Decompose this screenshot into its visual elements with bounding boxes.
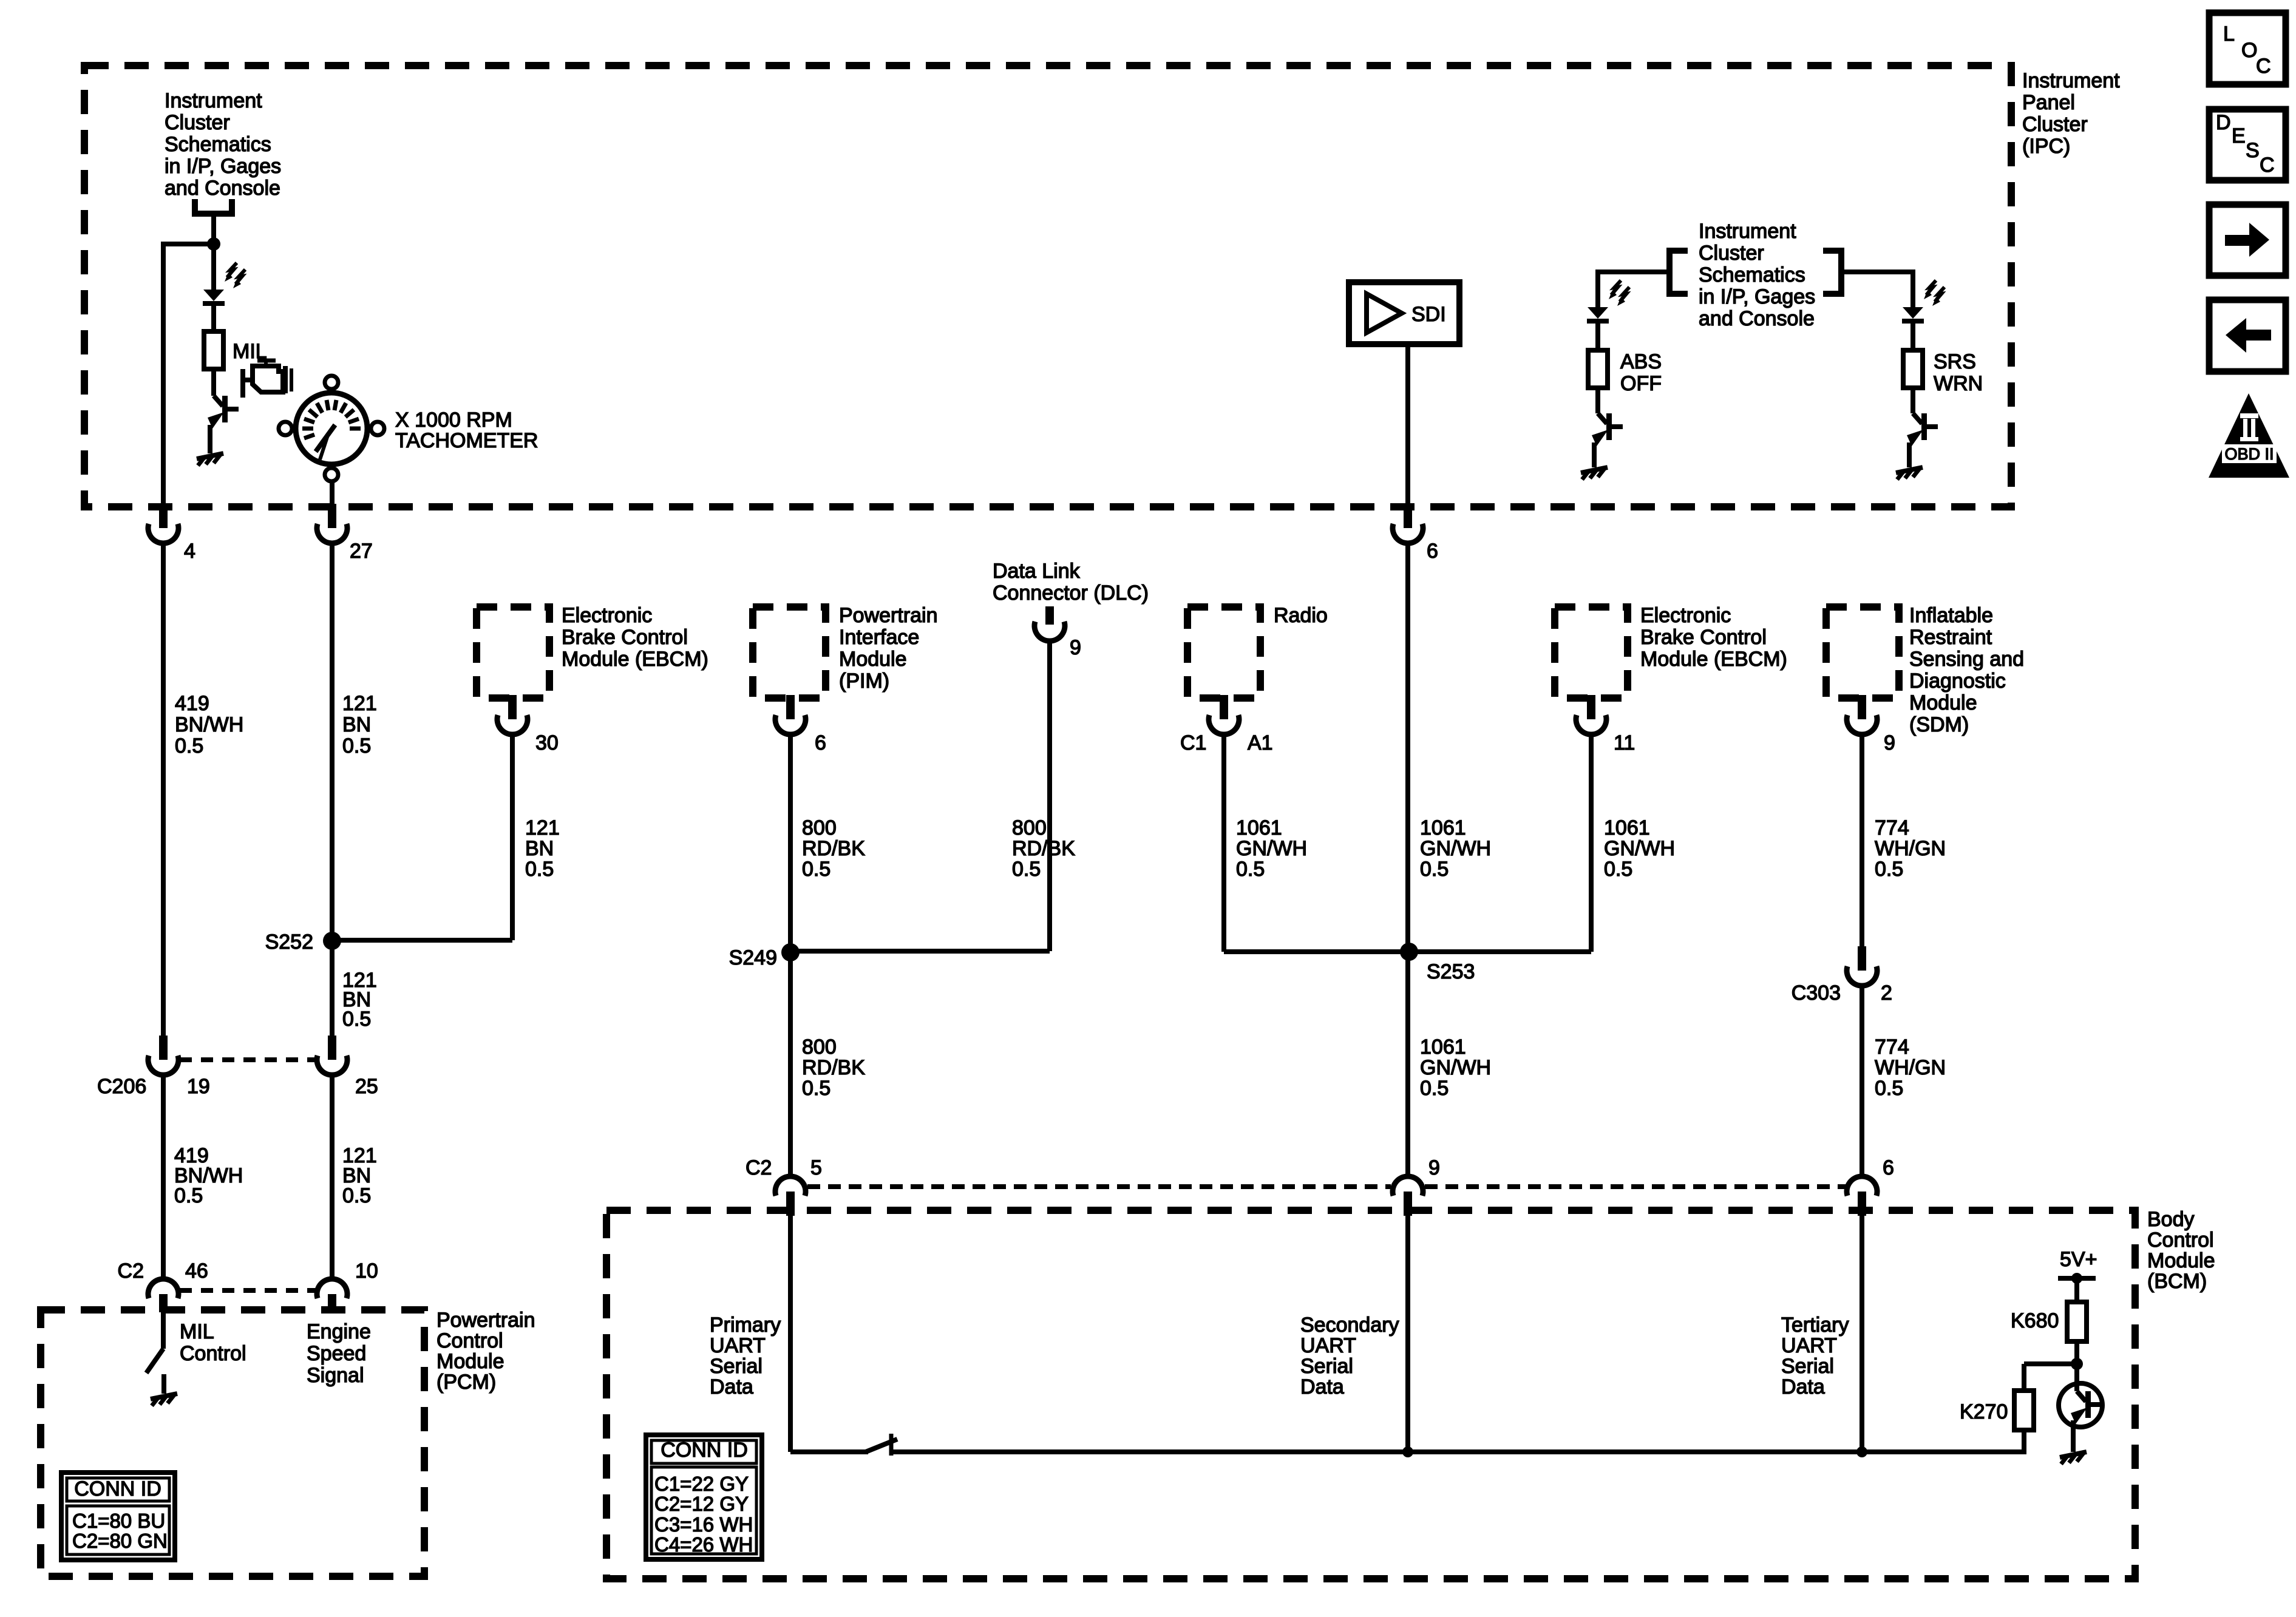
svg-text:Radio: Radio: [1274, 604, 1328, 627]
svg-text:0.5: 0.5: [342, 1008, 371, 1031]
svg-text:S249: S249: [729, 946, 777, 969]
svg-text:Data: Data: [710, 1375, 753, 1398]
svg-text:D: D: [2216, 111, 2231, 134]
svg-text:Control: Control: [180, 1342, 246, 1365]
right arrow icon box: [2209, 205, 2286, 276]
svg-text:Module (EBCM): Module (EBCM): [1640, 648, 1787, 671]
svg-text:BN: BN: [342, 713, 371, 736]
C206 row dashes: [180, 1057, 316, 1062]
wire S249 to DLC: [790, 949, 1050, 954]
svg-text:0.5: 0.5: [175, 734, 203, 758]
PCM dashed box: [41, 1310, 424, 1576]
wire label 1061 GN/WH 0.5 (SDI): [1420, 816, 1491, 881]
svg-text:UART: UART: [1781, 1334, 1837, 1357]
connector pin 9 (SDM): [1847, 695, 1877, 734]
svg-text:4: 4: [184, 540, 195, 563]
resistor K270: [2014, 1391, 2034, 1430]
wire resistor to driver: [211, 369, 216, 396]
wire K680 to junction: [2074, 1341, 2079, 1391]
svg-text:S: S: [2246, 139, 2260, 162]
K270 label: [1960, 1400, 2008, 1423]
wire 46 into PCM: [161, 1312, 166, 1349]
pin 6 label: [1427, 540, 1438, 563]
svg-text:K270: K270: [1960, 1400, 2008, 1423]
wire SDI pin6 down through S253: [1405, 544, 1410, 1175]
SRS indicator lamp: [1902, 280, 1944, 321]
svg-text:Electronic: Electronic: [1640, 604, 1731, 627]
svg-text:6: 6: [815, 731, 826, 754]
svg-text:0.5: 0.5: [342, 734, 371, 758]
ground MIL control: [151, 1394, 177, 1406]
CONN ID table (BCM): [646, 1435, 762, 1559]
5V+ label: [2060, 1248, 2097, 1271]
svg-text:GN/WH: GN/WH: [1604, 837, 1675, 860]
connector pin 6 (IPC): [1393, 504, 1423, 543]
svg-text:WRN: WRN: [1934, 372, 1983, 395]
svg-text:0.5: 0.5: [174, 1184, 203, 1207]
resistor SRS: [1903, 350, 1923, 388]
node junction dot: [207, 237, 220, 251]
wire label 774 WH/GN 0.5: [1875, 816, 1946, 881]
ground ABS: [1581, 467, 1608, 480]
wire label 121 BN 0.5 (lower): [342, 1144, 377, 1207]
svg-text:Module (EBCM): Module (EBCM): [562, 648, 708, 671]
svg-text:WH/GN: WH/GN: [1875, 837, 1946, 860]
wire SRS resistor to driver: [1911, 388, 1915, 413]
bus switch blade: [866, 1434, 897, 1456]
Engine Speed Signal label: [307, 1320, 371, 1387]
svg-text:MIL: MIL: [180, 1320, 214, 1343]
svg-text:ABS: ABS: [1620, 350, 1662, 373]
svg-text:Serial: Serial: [710, 1355, 763, 1378]
svg-text:0.5: 0.5: [525, 858, 554, 881]
connector pin 6 (PIM): [775, 695, 806, 734]
pin 27 label: [350, 540, 373, 563]
wire ABS lamp to resistor: [1595, 321, 1600, 350]
bracket under note: [195, 199, 232, 214]
svg-text:Schematics: Schematics: [165, 133, 271, 156]
svg-text:OBD II: OBD II: [2224, 445, 2274, 463]
S249 label: [729, 946, 777, 969]
OBD II icon: [2209, 393, 2289, 478]
svg-text:0.5: 0.5: [1012, 858, 1041, 881]
wire bracket to SRS lamp: [1841, 269, 1913, 307]
connector C303 pin 2: [1847, 946, 1877, 986]
svg-text:BN/WH: BN/WH: [175, 713, 243, 736]
svg-text:C2=12 GY: C2=12 GY: [654, 1493, 749, 1515]
driver symbol MIL: [208, 396, 239, 429]
SDM dashed box: [1826, 607, 1899, 698]
svg-text:25: 25: [355, 1075, 378, 1098]
svg-text:L: L: [2223, 22, 2235, 46]
svg-text:(IPC): (IPC): [2022, 135, 2070, 158]
wire label 121 BN 0.5: [342, 692, 377, 758]
svg-text:E: E: [2232, 124, 2246, 147]
wire label 800 RD/BK 0.5: [802, 816, 865, 881]
svg-text:9: 9: [1070, 636, 1081, 659]
svg-text:CONN ID: CONN ID: [74, 1477, 161, 1500]
driver symbol ABS: [1592, 413, 1623, 446]
pin 25 label: [355, 1075, 378, 1098]
LOC icon box: [2209, 13, 2286, 84]
svg-text:C: C: [2256, 55, 2271, 78]
svg-text:Panel: Panel: [2022, 91, 2075, 114]
EBCM dashed box (right): [1555, 607, 1628, 698]
instrument panel cluster (IPC) dashed box: [84, 66, 2011, 507]
5V+ supply bar: [2058, 1273, 2096, 1284]
wire label 121 BN 0.5 (EBCM): [525, 816, 560, 881]
wire radio to S253 row: [1224, 735, 1409, 952]
wire label 121 BN 0.5 (below S252): [342, 969, 377, 1031]
svg-text:CONN ID: CONN ID: [661, 1439, 748, 1462]
pin 5 label: [810, 1156, 822, 1179]
svg-text:Secondary: Secondary: [1300, 1314, 1399, 1337]
svg-text:and Console: and Console: [165, 177, 280, 200]
wire driver to ground: [208, 425, 212, 453]
svg-text:0.5: 0.5: [1236, 858, 1265, 881]
wire tach to pin 27: [330, 480, 335, 505]
svg-text:Restraint: Restraint: [1909, 626, 1992, 649]
wire node to MIL lamp: [211, 244, 216, 290]
svg-text:GN/WH: GN/WH: [1420, 1056, 1491, 1079]
svg-text:Engine: Engine: [307, 1320, 371, 1343]
svg-text:C2=80 GN: C2=80 GN: [72, 1530, 168, 1552]
svg-text:9: 9: [1428, 1156, 1440, 1179]
splice S252: [323, 932, 341, 950]
svg-text:Module: Module: [2147, 1249, 2215, 1272]
svg-text:0.5: 0.5: [342, 1184, 371, 1207]
wire pin6 to S249: [788, 735, 793, 952]
wire 25 to 10: [330, 1076, 335, 1278]
C1 label: [1180, 731, 1206, 754]
svg-text:SDI: SDI: [1411, 303, 1446, 326]
BCM dashed box: [606, 1210, 2135, 1579]
svg-text:C1: C1: [1180, 731, 1206, 754]
connector C2 pin 46 (dome): [148, 1279, 178, 1312]
connector pin 9 (BCM): [1393, 1176, 1423, 1216]
svg-text:Brake Control: Brake Control: [1640, 626, 1767, 649]
Secondary UART label: [1300, 1314, 1399, 1398]
svg-text:6: 6: [1883, 1156, 1894, 1179]
SDM label: [1909, 604, 2024, 736]
wire node to left branch: [163, 242, 214, 246]
svg-text:6: 6: [1427, 540, 1438, 563]
svg-text:Powertrain: Powertrain: [436, 1309, 535, 1332]
wire C303 down: [1860, 986, 1864, 1175]
svg-text:30: 30: [535, 731, 559, 754]
bracket right: [1823, 251, 1841, 294]
resistor ABS: [1588, 350, 1608, 388]
svg-text:Module: Module: [1909, 691, 1977, 714]
svg-text:GN/WH: GN/WH: [1420, 837, 1491, 860]
svg-text:S252: S252: [265, 931, 313, 954]
svg-text:Serial: Serial: [1300, 1355, 1353, 1378]
svg-text:C3=16 WH: C3=16 WH: [654, 1513, 753, 1536]
svg-text:774: 774: [1875, 1036, 1909, 1059]
svg-text:UART: UART: [710, 1334, 766, 1357]
svg-text:Powertrain: Powertrain: [839, 604, 938, 627]
connector C206 pin 25: [317, 1036, 347, 1075]
tachometer gauge: [279, 376, 384, 481]
pin 10 label: [355, 1259, 378, 1283]
wire 5V to K680: [2074, 1278, 2079, 1302]
wire SDI to pin 6: [1405, 344, 1410, 505]
DLC label: [993, 560, 1149, 605]
wire ABS resistor to driver: [1595, 388, 1600, 413]
wire K270 to bus: [2022, 1430, 2026, 1454]
svg-text:774: 774: [1875, 816, 1909, 839]
C2 row dashes: [180, 1288, 316, 1293]
svg-text:Diagnostic: Diagnostic: [1909, 670, 2006, 693]
svg-text:419: 419: [175, 692, 209, 715]
svg-text:RD/BK: RD/BK: [802, 1056, 865, 1079]
Primary UART label: [710, 1314, 781, 1398]
svg-text:1061: 1061: [1420, 816, 1466, 839]
svg-text:121: 121: [342, 692, 377, 715]
svg-text:Inflatable: Inflatable: [1909, 604, 1993, 627]
junction secondary-bus: [1402, 1446, 1413, 1457]
svg-text:X 1000 RPM: X 1000 RPM: [395, 408, 512, 432]
connector pin 6 (BCM): [1847, 1176, 1877, 1216]
connector pin 11: [1576, 695, 1606, 734]
CONN ID table (PCM): [61, 1473, 175, 1560]
wire junction to K270: [2024, 1364, 2077, 1391]
wire pin30 down to S252 row: [510, 735, 515, 940]
wire label 1061 GN/WH 0.5 (EBCM): [1604, 816, 1675, 881]
bracket left: [1669, 251, 1688, 294]
connector C2 pin 5 (BCM): [775, 1176, 806, 1216]
svg-text:in I/P, Gages: in I/P, Gages: [165, 155, 281, 178]
pin 4 label: [184, 540, 195, 563]
wire bracket to node: [211, 214, 216, 244]
svg-text:Instrument: Instrument: [165, 89, 262, 112]
svg-text:Signal: Signal: [307, 1364, 364, 1387]
pin 6 BCM label: [1883, 1156, 1894, 1179]
connector pin 30: [497, 695, 528, 734]
svg-text:C2: C2: [746, 1156, 772, 1179]
wire SRS driver to ground: [1907, 442, 1912, 467]
ground transistor: [2060, 1452, 2087, 1464]
pin 46 label: [185, 1259, 208, 1283]
wire primary UART: [788, 1215, 793, 1452]
svg-text:800: 800: [1012, 816, 1047, 839]
svg-text:Brake Control: Brake Control: [562, 626, 688, 649]
svg-text:9: 9: [1884, 731, 1895, 754]
svg-text:(BCM): (BCM): [2147, 1270, 2207, 1293]
PIM dashed box: [753, 607, 826, 698]
wire label 1061 GN/WH 0.5 (radio): [1236, 816, 1307, 881]
svg-text:C2: C2: [118, 1259, 144, 1283]
wire transistor to ground: [2071, 1420, 2076, 1452]
MIL indicator lamp: [203, 263, 245, 303]
svg-text:Data: Data: [1781, 1375, 1825, 1398]
pin 9 DLC label: [1070, 636, 1081, 659]
wire left branch down: [161, 242, 166, 505]
MIL control switch blade: [146, 1349, 163, 1373]
C206 label: [97, 1075, 146, 1098]
SRS WRN label: [1934, 350, 1983, 395]
instrument cluster schematics note (right): [1699, 220, 1815, 330]
IPC label: [2022, 69, 2120, 158]
svg-text:O: O: [2241, 39, 2257, 62]
svg-text:C303: C303: [1792, 981, 1841, 1005]
svg-text:OFF: OFF: [1620, 372, 1662, 395]
Radio dashed box: [1187, 607, 1260, 698]
DESC icon box: [2209, 109, 2286, 180]
Radio label: [1274, 604, 1328, 627]
connector pin 9 (DLC): [1034, 606, 1065, 641]
wire pin11 to S253: [1409, 735, 1591, 952]
svg-text:WH/GN: WH/GN: [1875, 1056, 1946, 1079]
PCM label: [436, 1309, 535, 1394]
BCM C2 label: [746, 1156, 772, 1179]
driver symbol SRS: [1907, 413, 1938, 446]
svg-text:Body: Body: [2147, 1208, 2195, 1231]
svg-text:Sensing and: Sensing and: [1909, 648, 2024, 671]
dotted tie line C2-9: [807, 1184, 1391, 1189]
svg-text:Connector (DLC): Connector (DLC): [993, 581, 1149, 605]
svg-text:Serial: Serial: [1781, 1355, 1834, 1378]
connector pin 4: [148, 504, 178, 543]
wire bus left segment: [790, 1449, 868, 1454]
Tertiary UART label: [1781, 1314, 1849, 1398]
tachometer label: [395, 408, 538, 452]
wire S252 down to pin 25: [330, 941, 335, 1037]
svg-text:K680: K680: [2011, 1309, 2059, 1332]
svg-text:Cluster: Cluster: [1699, 242, 1764, 265]
svg-text:5V+: 5V+: [2060, 1248, 2097, 1271]
C303 label: [1792, 981, 1841, 1005]
svg-text:Module: Module: [839, 648, 907, 671]
svg-text:Instrument: Instrument: [1699, 220, 1796, 243]
wire pin9 to C303: [1860, 735, 1864, 946]
pin 2 label: [1881, 981, 1892, 1005]
svg-text:0.5: 0.5: [802, 858, 830, 881]
svg-text:Control: Control: [436, 1329, 503, 1352]
splice S253: [1400, 943, 1418, 961]
svg-text:RD/BK: RD/BK: [1012, 837, 1075, 860]
S253 label: [1427, 960, 1475, 983]
svg-text:(SDM): (SDM): [1909, 713, 1969, 736]
A1 label: [1248, 731, 1273, 754]
connector A1 (radio): [1209, 695, 1239, 734]
svg-text:C1=22 GY: C1=22 GY: [654, 1473, 749, 1495]
svg-text:19: 19: [187, 1075, 210, 1098]
svg-text:S253: S253: [1427, 960, 1475, 983]
svg-text:Tertiary: Tertiary: [1781, 1314, 1849, 1337]
svg-text:Data Link: Data Link: [993, 560, 1081, 583]
connector C206 pin 19: [148, 1036, 178, 1075]
svg-text:121: 121: [525, 816, 560, 839]
svg-text:5: 5: [810, 1156, 822, 1179]
pin 9 SDM label: [1884, 731, 1895, 754]
wire SRS lamp to resistor: [1911, 321, 1915, 350]
svg-text:800: 800: [802, 1036, 837, 1059]
EBCM left label: [562, 604, 708, 671]
wire bracket to ABS lamp: [1598, 269, 1669, 307]
connector pin 27: [317, 504, 347, 543]
svg-text:Primary: Primary: [710, 1314, 781, 1337]
svg-text:C4=26 WH: C4=26 WH: [654, 1533, 753, 1556]
svg-text:Speed: Speed: [307, 1342, 366, 1365]
svg-text:BN: BN: [525, 837, 554, 860]
svg-text:in I/P, Gages: in I/P, Gages: [1699, 285, 1815, 308]
splice S249: [781, 943, 800, 961]
wire label 419 BN/WH 0.5 (lower): [174, 1144, 243, 1207]
svg-text:0.5: 0.5: [1420, 858, 1449, 881]
wire S252 to EBCM corner: [332, 938, 512, 943]
wire pin4 to C206: [161, 544, 166, 1037]
S252 label: [265, 931, 313, 954]
svg-text:GN/WH: GN/WH: [1236, 837, 1307, 860]
svg-text:0.5: 0.5: [1604, 858, 1632, 881]
wire label 1061 GN/WH 0.5 (lower): [1420, 1036, 1491, 1100]
svg-text:Cluster: Cluster: [2022, 113, 2088, 136]
pin 6 PIM label: [815, 731, 826, 754]
svg-text:A1: A1: [1248, 731, 1273, 754]
junction tertiary-bus: [1856, 1446, 1867, 1457]
svg-text:46: 46: [185, 1259, 208, 1283]
resistor K680: [2067, 1302, 2087, 1341]
pin 11 label: [1614, 731, 1635, 754]
SDI buffer box: [1349, 282, 1459, 344]
svg-text:0.5: 0.5: [802, 1077, 830, 1100]
wire pin27 to S252: [330, 544, 335, 941]
MIL Control label: [180, 1320, 246, 1365]
svg-text:Cluster: Cluster: [165, 111, 230, 134]
ABS indicator lamp: [1587, 280, 1629, 321]
transistor Q1 (BCM output): [2059, 1383, 2102, 1427]
EBCM right label: [1640, 604, 1787, 671]
wire label 800 RD/BK 0.5 (DLC): [1012, 816, 1075, 881]
pin 30 label: [535, 731, 559, 754]
EBCM dashed box (left): [477, 607, 549, 698]
svg-text:Control: Control: [2147, 1229, 2214, 1252]
svg-text:11: 11: [1614, 731, 1635, 754]
svg-text:0.5: 0.5: [1875, 1077, 1903, 1100]
resistor MIL: [204, 331, 223, 369]
svg-text:27: 27: [350, 540, 373, 563]
svg-text:1061: 1061: [1236, 816, 1282, 839]
svg-text:0.5: 0.5: [1420, 1077, 1449, 1100]
svg-text:SRS: SRS: [1934, 350, 1976, 373]
wire S249 down: [788, 952, 793, 1175]
svg-text:(PIM): (PIM): [839, 670, 889, 693]
C2 label: [118, 1259, 144, 1283]
svg-text:RD/BK: RD/BK: [802, 837, 865, 860]
wire label 800 RD/BK 0.5 (lower): [802, 1036, 865, 1100]
wire to PCM ground: [161, 1374, 166, 1394]
svg-text:Schematics: Schematics: [1699, 263, 1805, 286]
svg-text:C206: C206: [97, 1075, 146, 1098]
instrument cluster schematics note (left): [165, 89, 281, 200]
K680 label: [2011, 1309, 2059, 1332]
pin 9 BCM label: [1428, 1156, 1440, 1179]
svg-text:0.5: 0.5: [1875, 858, 1903, 881]
svg-text:Data: Data: [1300, 1375, 1344, 1398]
junction below K680: [2071, 1358, 2083, 1370]
wire tertiary UART: [1860, 1215, 1864, 1452]
left arrow icon box: [2209, 300, 2286, 371]
BCM label: [2147, 1208, 2215, 1293]
wire 19 to 46: [161, 1076, 166, 1278]
wire bus main: [891, 1449, 2024, 1454]
svg-text:C: C: [2260, 154, 2275, 177]
PIM label: [839, 604, 938, 693]
svg-text:1061: 1061: [1604, 816, 1650, 839]
svg-text:Interface: Interface: [839, 626, 919, 649]
dotted tie line 9-6: [1425, 1184, 1846, 1189]
